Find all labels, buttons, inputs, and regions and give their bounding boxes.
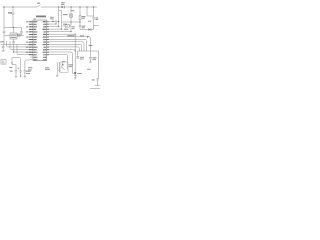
label S2 <box>71 10 74 12</box>
wire bottom right edge <box>90 88 100 90</box>
label K1 <box>62 61 65 63</box>
capacitor C8 bottom right <box>95 79 100 86</box>
IC U1 PIC16F84 <box>33 20 47 61</box>
wire x87 <box>87 7 94 16</box>
label 22p <box>96 17 99 19</box>
label LED <box>78 73 82 75</box>
crystal X1 <box>19 71 21 76</box>
wire right row7 <box>50 37 91 57</box>
arrowhead node <box>11 62 13 64</box>
label 22p row2 <box>96 19 99 21</box>
diode D6 row7 <box>87 36 89 38</box>
label R4 <box>80 56 84 58</box>
wire battery left <box>3 7 5 28</box>
wire right row12 <box>50 49 76 51</box>
label C4 <box>10 70 13 72</box>
label under IC <box>28 67 32 69</box>
label near pin1 <box>50 16 54 18</box>
label 104 row2 <box>82 27 85 29</box>
capacitor C3 mid <box>20 28 23 36</box>
label +5V <box>1 41 5 43</box>
wire top rail <box>3 6 98 8</box>
diode D1 <box>61 6 64 9</box>
label on row7 <box>80 35 84 37</box>
bus line y51 <box>78 50 99 52</box>
wire +5V row <box>1 43 30 45</box>
label D1 <box>61 2 64 4</box>
transistor Q1 <box>62 62 64 70</box>
label R4 row2 <box>80 58 83 60</box>
label a2 <box>9 66 12 68</box>
connector J1 <box>1 60 6 65</box>
label mid right <box>88 20 91 22</box>
label C10 <box>93 57 97 59</box>
capacitor C1 left <box>3 28 6 36</box>
wire mid link <box>62 21 80 23</box>
label S1 <box>37 2 39 4</box>
LED D2 <box>74 72 77 75</box>
label 10k <box>82 16 86 18</box>
label 10k row2 <box>82 17 85 19</box>
capacitor C6 <box>79 25 81 29</box>
ground left of Q1 <box>58 62 60 71</box>
wire osc1 <box>12 58 21 71</box>
label 4MHz <box>26 70 31 72</box>
label R2 <box>63 23 67 25</box>
wire right row6 <box>50 33 76 35</box>
label relay right <box>69 64 73 66</box>
trimmer R3 <box>63 25 72 27</box>
arrow stem <box>11 58 13 63</box>
box around Q1 <box>60 62 68 73</box>
wire right row1-4 <box>50 22 62 30</box>
label trimmer <box>63 14 68 16</box>
capacitor C7 <box>92 7 99 26</box>
wire right row13-14 down <box>50 52 77 74</box>
label 104 <box>82 25 85 27</box>
label U2 78L05 <box>11 34 16 36</box>
label top-left pin <box>34 18 36 20</box>
resistor R5 <box>79 7 81 16</box>
wire osc2 <box>25 60 30 70</box>
ground LED <box>74 75 76 79</box>
pin stubs left <box>30 22 33 60</box>
diode D5 <box>88 28 91 30</box>
right edge column <box>98 51 100 78</box>
label gnd right <box>87 68 90 70</box>
wire reg in/out <box>4 35 24 37</box>
ground mid <box>56 62 58 77</box>
zener D4 <box>77 51 79 56</box>
ground reg <box>12 39 15 44</box>
label C9 <box>92 79 95 81</box>
label RL2 <box>89 44 93 46</box>
LED column <box>74 34 76 72</box>
wire 9V node <box>4 28 22 34</box>
wire y29.5 branch <box>80 26 94 30</box>
regulator U2 box <box>10 33 17 39</box>
switch S1 <box>38 5 41 8</box>
IC pin text <box>26 22 33 55</box>
crystal cap C5 <box>24 71 27 78</box>
wire left rows staircase <box>7 41 31 47</box>
label PIC16F84 <box>36 15 46 17</box>
pin stubs right <box>47 22 50 55</box>
capacitor C2 left low <box>2 36 5 52</box>
label R3 <box>64 28 68 30</box>
label 4k7 <box>72 26 75 28</box>
battery B1 <box>11 7 15 28</box>
label xt <box>18 67 20 69</box>
capacitor C10 right col <box>89 57 91 63</box>
crystal cap C4 <box>12 64 17 78</box>
pushbutton S2 col <box>70 7 72 14</box>
label REL <box>68 35 75 37</box>
label Q1 <box>45 68 49 70</box>
pull-up bus verticals <box>53 7 62 29</box>
label C3 <box>17 33 21 35</box>
label 9V+ <box>8 12 12 14</box>
junction dots <box>3 6 94 65</box>
wire right row8-11 staircase <box>50 39 87 51</box>
wire right row5 <box>50 31 72 33</box>
